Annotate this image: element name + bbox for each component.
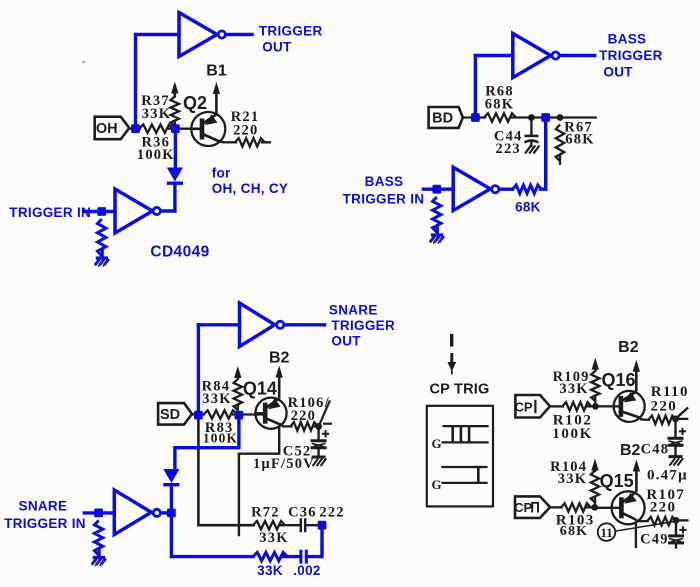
capacitor C36	[301, 518, 319, 532]
label B2 at Q16	[618, 339, 639, 356]
wire inverter U3A input	[198, 325, 239, 410]
svg-text:TRIGGER IN: TRIGGER IN	[9, 205, 91, 220]
supply arrow above R84	[234, 366, 241, 380]
label R84 33K	[202, 379, 232, 408]
node at OH pad output	[131, 124, 140, 133]
svg-text:CP TRIG: CP TRIG	[430, 381, 490, 397]
arrow B2 Q15 collector	[633, 460, 640, 492]
resistor to ground at trigger in (vertical zigzag)	[98, 219, 106, 258]
label CD4049	[150, 244, 209, 261]
label R83 100K	[203, 420, 238, 445]
arrow B2 Q14 collector	[276, 366, 283, 399]
svg-text:OUT: OUT	[331, 334, 361, 349]
label G upper	[431, 436, 441, 451]
inverter U1B (trigger in)	[115, 189, 160, 233]
svg-text:TRIGGER IN: TRIGGER IN	[343, 192, 425, 207]
label 68K blue	[515, 200, 541, 215]
resistor to ground bass in (vertical zigzag)	[433, 197, 441, 235]
svg-text:33K: 33K	[558, 471, 587, 487]
svg-text:R72: R72	[251, 505, 280, 521]
label SNARE TRIGGER IN	[4, 499, 86, 531]
svg-text:B1: B1	[206, 63, 227, 80]
slanted wire from C48 node	[676, 408, 688, 419]
resistor R83 (horizontal zigzag)	[204, 410, 238, 418]
wire OH pad to R36	[129, 128, 140, 130]
resistor R68 (horizontal zigzag)	[484, 113, 516, 121]
label R36 100K	[137, 134, 175, 163]
resistor to ground snare in (vertical zigzag)	[94, 521, 102, 558]
svg-text:OH: OH	[96, 121, 118, 137]
transistor Q15	[595, 491, 645, 524]
wire bass trigger in	[423, 187, 453, 190]
blue feedback path 33K and .002 cap	[171, 513, 322, 564]
svg-text:SNARE: SNARE	[329, 302, 378, 317]
svg-text:Q15: Q15	[600, 471, 634, 491]
wire SD node down to R72	[198, 415, 253, 525]
node snare trigger in	[94, 509, 103, 518]
wire below Q15	[635, 524, 637, 547]
capacitor C49 (electrolytic)	[668, 520, 687, 547]
svg-text:100K: 100K	[552, 426, 593, 442]
wire inverter U2A input	[475, 56, 512, 118]
resistor R102 (horizontal zigzag)	[562, 402, 591, 410]
svg-text:1µF/50V: 1µF/50V	[253, 456, 315, 472]
CP TRIG waveform box	[427, 406, 493, 507]
label Q2	[183, 93, 207, 113]
node R103/R104 junction	[587, 504, 598, 511]
label R106 220	[288, 395, 330, 424]
transistor Q2	[191, 112, 225, 146]
resistor R103 (horizontal zigzag)	[561, 503, 591, 511]
label BASS TRIGGER OUT	[599, 31, 663, 79]
arrow pointing down to CP TRIG	[447, 334, 456, 375]
svg-text:B2: B2	[618, 339, 639, 356]
waveform 1 (burst) in box	[443, 426, 488, 442]
svg-text:220: 220	[291, 408, 316, 424]
wire Q15 emitter to R107	[637, 520, 648, 522]
label C49	[640, 532, 669, 548]
node R36/R37 junction	[171, 124, 180, 133]
svg-text:68K: 68K	[515, 200, 541, 215]
label R110 220	[650, 384, 688, 414]
svg-text:OUT: OUT	[603, 64, 633, 79]
wire node to Q14 base	[233, 413, 265, 415]
slanted wire from C52 node	[319, 402, 331, 427]
svg-text:222: 222	[319, 505, 344, 521]
node C36/blue junction	[318, 521, 327, 530]
svg-text:68K: 68K	[560, 524, 589, 539]
wire CP pad to R102	[550, 405, 563, 407]
svg-text:BASS: BASS	[365, 174, 404, 189]
pad CP upper	[514, 395, 550, 418]
scan speck	[83, 61, 85, 63]
svg-text:33K: 33K	[202, 391, 231, 407]
svg-text:OUT: OUT	[262, 39, 292, 54]
wire inverter U2B output to 68K	[500, 187, 513, 190]
node at SD pad output	[194, 411, 203, 420]
svg-text:TRIGGER: TRIGGER	[259, 23, 323, 38]
label C52 1uF/50V	[253, 443, 315, 472]
ground below trigger in resistor	[95, 258, 109, 267]
resistor 68K (blue, bass in)	[513, 185, 542, 193]
ground below snare in resistor	[92, 558, 106, 567]
label Q14	[243, 379, 277, 399]
svg-text:OH, CH, CY: OH, CH, CY	[212, 181, 289, 196]
label R109 33K	[553, 369, 590, 397]
label SNARE TRIGGER OUT	[329, 302, 395, 348]
svg-text:C49: C49	[640, 532, 669, 548]
wire diode D1 to inverter U1B output	[161, 183, 175, 211]
svg-text:220: 220	[233, 123, 258, 139]
waveform 2 (pulse) in box	[443, 467, 487, 483]
label 0.47u	[647, 468, 688, 484]
pin 11 circle	[598, 523, 616, 541]
wire snare trigger in	[84, 511, 114, 514]
svg-text:11: 11	[600, 525, 612, 540]
label R67 68K	[564, 120, 594, 148]
svg-text:220: 220	[650, 398, 677, 414]
node trigger in	[97, 207, 106, 216]
wire blue junction down to 68K resistor	[540, 118, 545, 190]
wire BD pad to R68	[463, 116, 485, 118]
node bass trigger in	[432, 185, 441, 194]
svg-text:33K: 33K	[257, 563, 283, 578]
svg-text:CP: CP	[514, 399, 532, 414]
capacitor C52 (electrolytic)	[311, 426, 330, 456]
label R37 33K	[141, 93, 171, 122]
wire Q16 emitter to R110	[642, 418, 649, 421]
wire R68 to line end	[512, 116, 596, 118]
pad SD	[158, 403, 192, 425]
svg-text:100K: 100K	[137, 147, 175, 163]
supply arrow above R109	[592, 358, 599, 372]
svg-text:SD: SD	[160, 407, 180, 423]
supply arrow above R104	[591, 459, 598, 473]
label C36 222	[288, 505, 345, 521]
node R83/R84 junction	[235, 411, 244, 420]
wire node to base	[169, 128, 202, 130]
ground below bass in resistor	[430, 235, 444, 244]
svg-text:Q16: Q16	[601, 370, 635, 390]
svg-text:C36: C36	[288, 505, 317, 521]
label R102 100K	[552, 413, 593, 442]
svg-text:223: 223	[496, 141, 521, 157]
wire inverter U3B output to node	[161, 511, 171, 514]
svg-text:SNARE: SNARE	[19, 499, 68, 514]
svg-text:TRIGGER: TRIGGER	[331, 318, 395, 333]
wire trigger out stub	[226, 33, 252, 36]
svg-text:68K: 68K	[565, 131, 594, 147]
svg-text:CD4049: CD4049	[150, 244, 209, 261]
wire Q2 emitter to R21	[224, 141, 237, 143]
label C44 223	[494, 128, 523, 157]
label 33K .002 blue	[257, 563, 321, 578]
arrow B2 Q16 collector	[633, 360, 640, 392]
svg-text:Q2: Q2	[183, 93, 207, 113]
resistor R104 (vertical zigzag)	[591, 471, 599, 506]
capacitor C48 (electrolytic)	[668, 419, 687, 456]
wire CP pad to R103	[550, 506, 562, 508]
label G lower	[431, 477, 441, 492]
resistor R67 (vertical zigzag)	[556, 125, 564, 164]
blue wire from node down around	[175, 415, 239, 468]
node R110/C48 junction	[672, 416, 679, 423]
resistor R110 (horizontal zigzag)	[649, 416, 676, 424]
resistor R107 (horizontal zigzag)	[647, 517, 676, 525]
label B2 C48	[620, 442, 669, 459]
label TRIGGER OUT	[259, 23, 323, 54]
inverter U3B (snare trigger in)	[114, 490, 160, 535]
label TRIGGER IN	[9, 205, 91, 220]
node R102/R109 junction	[587, 403, 598, 410]
wire R72 to C36	[281, 524, 300, 526]
transistor Q16	[596, 391, 645, 422]
inverter U2B (bass trigger in)	[453, 167, 499, 210]
label R21 220	[231, 109, 260, 139]
diode D2 (blue, cathode down)	[163, 469, 179, 485]
label B1	[206, 63, 227, 80]
label B2 at Q14	[269, 350, 290, 367]
svg-text:100K: 100K	[203, 430, 238, 445]
supply arrow above R37	[171, 82, 178, 98]
wire bass trigger out stub	[560, 54, 595, 57]
label Q16	[601, 370, 635, 390]
node R106/C52 junction	[315, 423, 323, 430]
diode D1 (blue, cathode down)	[167, 168, 183, 184]
resistor R72 (horizontal zigzag)	[253, 521, 285, 529]
svg-text:TRIGGER: TRIGGER	[599, 48, 663, 63]
label Q15	[600, 471, 634, 491]
svg-text:for: for	[212, 166, 231, 181]
node at BD pad output	[471, 113, 480, 122]
svg-text:CP: CP	[514, 500, 532, 515]
ground below C48	[669, 457, 684, 466]
thin wire pin11 to C49 node	[615, 521, 677, 531]
wire Q14 emitter net down-left	[239, 428, 279, 535]
svg-text:B2: B2	[269, 350, 290, 367]
node snare inverter output	[167, 509, 176, 518]
svg-text:220: 220	[650, 500, 677, 516]
svg-text:33K: 33K	[142, 106, 171, 122]
svg-text:G: G	[431, 436, 441, 451]
wire trigger in to inverter	[85, 210, 116, 213]
arrow B1 (collector supply)	[213, 82, 220, 114]
svg-text:BASS: BASS	[608, 31, 647, 46]
wire snare trigger out stub	[285, 323, 325, 326]
label R103 68K	[556, 513, 595, 540]
resistor R106 (horizontal zigzag)	[291, 422, 318, 430]
svg-text:C48: C48	[641, 442, 670, 458]
resistor R109 (vertical zigzag)	[591, 371, 599, 404]
wire Q14 emitter to R106	[283, 425, 291, 427]
wire diode D2 to inverter output node	[170, 485, 173, 513]
node blue junction to 68K	[541, 113, 550, 122]
ground below C52	[312, 457, 327, 466]
wire SD pad to node	[192, 413, 204, 415]
label R107 220	[646, 487, 685, 516]
svg-text:0.47µ: 0.47µ	[647, 468, 688, 484]
svg-text:33K: 33K	[259, 530, 288, 546]
node R67 top	[557, 114, 564, 121]
resistor R36 (horizontal zigzag)	[139, 124, 173, 132]
inverter U2A (bass trigger out)	[513, 33, 559, 77]
svg-text:.002: .002	[293, 563, 320, 578]
pad CP lower	[514, 496, 550, 518]
inverter U3A (snare trigger out)	[240, 303, 284, 347]
resistor R84 (vertical zigzag)	[234, 379, 242, 411]
svg-text:33K: 33K	[559, 381, 588, 397]
node C44 top	[528, 114, 535, 121]
label CP TRIG	[430, 381, 490, 397]
resistor R37 (vertical zigzag)	[171, 97, 179, 128]
label R68 68K	[485, 84, 514, 113]
svg-text:Q14: Q14	[243, 379, 277, 399]
svg-text:G: G	[431, 477, 441, 492]
svg-text:B2: B2	[620, 442, 641, 459]
resistor R21 (horizontal zigzag)	[235, 138, 271, 146]
svg-text:TRIGGER IN: TRIGGER IN	[4, 516, 86, 531]
svg-text:BD: BD	[432, 110, 453, 126]
label for OH, CH, CY	[212, 166, 289, 197]
node R107/C49 junction	[673, 517, 688, 524]
wire inverter U1A input from node	[136, 35, 180, 129]
label R104 33K	[550, 459, 587, 487]
pad OH	[95, 117, 130, 140]
pad BD	[429, 107, 463, 128]
transistor Q14	[255, 398, 286, 429]
wire node down to diode D1	[174, 129, 177, 167]
svg-text:68K: 68K	[485, 96, 514, 112]
label R72 33K black	[251, 505, 289, 547]
capacitor C44	[524, 118, 539, 154]
inverter U1A (trigger out buffer)	[179, 13, 225, 57]
label BASS TRIGGER IN	[343, 174, 425, 206]
